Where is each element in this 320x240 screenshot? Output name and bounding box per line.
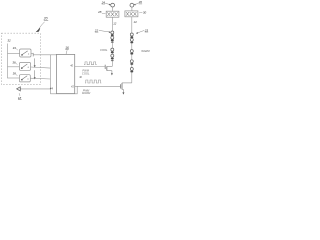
terminal circle cool string xyxy=(111,3,115,7)
svg-text:34: 34 xyxy=(13,46,17,50)
svg-text:23: 23 xyxy=(144,28,149,32)
svg-text:18: 18 xyxy=(18,96,22,100)
terminal circle warm string xyxy=(130,3,134,7)
wire PWM cool xyxy=(75,66,106,68)
svg-text:36: 36 xyxy=(12,60,16,64)
wire from S1 to controller (top) xyxy=(31,53,33,55)
down arrow A2 xyxy=(34,70,36,77)
wire bus inside dimmer xyxy=(7,44,9,79)
label 38 xyxy=(13,72,18,76)
vertical bus to controller xyxy=(49,55,51,94)
wire from S2 to bus xyxy=(31,67,51,68)
label 20 with arrow to dimmer box xyxy=(37,17,49,32)
label 23 with arrow to warm LED xyxy=(136,28,148,33)
wire stub to switch S3 xyxy=(8,77,20,79)
label 30 xyxy=(139,10,146,14)
svg-text:20: 20 xyxy=(43,17,48,21)
dim input wire with left arrowhead xyxy=(17,88,51,90)
text PWM COOL xyxy=(82,69,90,76)
MOSFET Q1 xyxy=(105,65,112,74)
controller U1 box xyxy=(56,54,74,93)
svg-text:32: 32 xyxy=(7,38,11,42)
label 28 xyxy=(97,10,105,14)
dimmer module dashed box xyxy=(1,33,40,84)
svg-text:14: 14 xyxy=(134,20,138,24)
switch S3 box xyxy=(19,75,30,82)
svg-text:COOL: COOL xyxy=(82,72,90,76)
cool LED string xyxy=(111,31,114,67)
LED module box warm (30) xyxy=(125,11,138,17)
wire stub to switch S2 xyxy=(8,66,20,68)
svg-text:22: 22 xyxy=(94,28,99,32)
svg-text:38: 38 xyxy=(13,72,17,76)
svg-text:WARM: WARM xyxy=(82,91,91,95)
waveform PWM warm xyxy=(85,80,101,83)
svg-text:12: 12 xyxy=(113,21,117,25)
svg-text:24: 24 xyxy=(101,0,106,4)
label 26 with arrow xyxy=(134,0,143,5)
label 24 with arrow xyxy=(101,0,111,5)
bottom routed wire to PWM warm net xyxy=(50,86,77,94)
wire xyxy=(131,7,133,11)
svg-text:26: 26 xyxy=(138,0,143,4)
wire from S3 to bus xyxy=(30,77,50,80)
wire xyxy=(111,17,113,31)
label 34 xyxy=(13,46,18,50)
text PWM WARM xyxy=(82,88,91,95)
MOSFET Q2 xyxy=(121,83,132,93)
svg-text:COOL: COOL xyxy=(100,48,108,52)
warm LED string xyxy=(130,33,133,83)
svg-text:28: 28 xyxy=(97,10,102,14)
label 36 xyxy=(12,60,17,64)
LED module box cool (28) xyxy=(106,11,119,17)
svg-text:WARM: WARM xyxy=(141,49,150,53)
wire PWM warm xyxy=(75,85,121,87)
label 18 xyxy=(18,93,22,100)
switch S2 box xyxy=(19,63,30,71)
down arrow A1 xyxy=(34,58,36,65)
svg-text:30: 30 xyxy=(143,10,147,14)
wire xyxy=(112,7,114,11)
wire stub to switch S1 xyxy=(8,53,20,55)
waveform PWM cool xyxy=(84,62,97,65)
connector tick xyxy=(32,53,34,57)
switch S1 box xyxy=(20,49,31,57)
svg-text:16: 16 xyxy=(65,46,69,50)
wire xyxy=(131,17,133,33)
label 22 with arrow to cool LED xyxy=(94,28,111,33)
label 16 xyxy=(65,46,69,54)
